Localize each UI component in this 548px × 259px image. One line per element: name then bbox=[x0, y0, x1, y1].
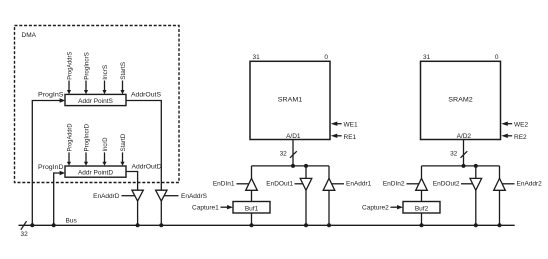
svg-text:AddrOutD: AddrOutD bbox=[132, 164, 162, 171]
wire EnDIn1 to Buf1 bbox=[251, 190, 253, 201]
wire SRAM1 buffer rail bbox=[252, 165, 330, 167]
control input ProgIncrD bbox=[83, 124, 90, 166]
junction ProgInS-bus bbox=[30, 223, 34, 227]
wire A/D2 to buffer rail bbox=[463, 140, 465, 166]
svg-text:EnAddrD: EnAddrD bbox=[93, 193, 120, 200]
WE1 input arrow bbox=[331, 122, 342, 126]
junction Buf2-bus bbox=[420, 223, 424, 227]
svg-text:Addr PointS: Addr PointS bbox=[78, 98, 113, 105]
wire rail to EnDOut2 bbox=[475, 166, 477, 179]
memory SRAM2 bbox=[421, 61, 501, 140]
tri-state buffer EnDIn1 bbox=[246, 178, 258, 190]
bus width slash 32 bbox=[21, 221, 29, 238]
EnAddr1 enable stub bbox=[332, 183, 344, 185]
svg-text:RE2: RE2 bbox=[514, 134, 527, 141]
svg-text:0: 0 bbox=[324, 54, 328, 61]
junction ProgInD-bus bbox=[52, 223, 56, 227]
control input ProgAddrS bbox=[66, 51, 73, 94]
junction A/D1-rail bbox=[291, 164, 295, 168]
wire SRAM2 buffer rail bbox=[422, 165, 500, 167]
control input StartS bbox=[120, 61, 127, 94]
svg-text:32: 32 bbox=[450, 151, 458, 158]
svg-text:WE1: WE1 bbox=[344, 122, 358, 129]
Capture2 arrow bbox=[391, 205, 404, 209]
junction EnAddrS-bus bbox=[159, 223, 163, 227]
junction EnAddrD-bus bbox=[136, 223, 140, 227]
junction EnDOut2-bus bbox=[474, 223, 478, 227]
svg-text:StartS: StartS bbox=[120, 61, 127, 79]
svg-text:ProgInD: ProgInD bbox=[38, 164, 64, 171]
svg-text:32: 32 bbox=[21, 231, 29, 238]
wire AddrOutS (Addr PointS to EnAddrS buffer) bbox=[126, 101, 161, 191]
wire EnDOut2 to bus bbox=[475, 190, 477, 225]
wire EnAddr1 to bus bbox=[328, 190, 330, 225]
register Addr PointD bbox=[65, 166, 126, 177]
EnAddrS enable stub bbox=[164, 195, 178, 197]
svg-text:31: 31 bbox=[423, 54, 431, 61]
svg-text:Buf1: Buf1 bbox=[245, 206, 259, 213]
wire Bus bbox=[19, 224, 515, 226]
junction A/D2-rail bbox=[462, 164, 466, 168]
EnDOut1 enable stub bbox=[295, 183, 303, 185]
svg-text:SRAM1: SRAM1 bbox=[278, 96, 303, 103]
junction Buf1-bus bbox=[250, 223, 254, 227]
svg-text:ProgAddrD: ProgAddrD bbox=[66, 123, 73, 151]
wire Buf2 to bus bbox=[421, 213, 423, 225]
RE2 input arrow bbox=[501, 134, 512, 138]
control input IncrS bbox=[102, 64, 109, 94]
wire AddrOutD (Addr PointD to EnAddrD buffer) bbox=[126, 172, 138, 191]
wire ProgInD (bus to Addr PointD) bbox=[54, 171, 65, 226]
svg-text:ProgAddrS: ProgAddrS bbox=[66, 51, 73, 80]
svg-text:EnDIn2: EnDIn2 bbox=[383, 181, 405, 188]
control input ProgIncrS bbox=[83, 52, 90, 95]
junction EnAddr2-bus bbox=[498, 223, 502, 227]
register Buf2 bbox=[403, 202, 440, 214]
svg-text:IncrS: IncrS bbox=[102, 64, 109, 80]
svg-text:Buf2: Buf2 bbox=[415, 206, 429, 213]
control input ProgAddrD bbox=[66, 123, 73, 166]
tri-state buffer EnDOut1 bbox=[300, 178, 312, 190]
svg-text:32: 32 bbox=[280, 151, 288, 158]
EnDIn1 enable stub bbox=[237, 183, 249, 185]
tri-state buffer EnDIn2 bbox=[416, 178, 428, 190]
svg-text:EnAddr1: EnAddr1 bbox=[346, 181, 372, 188]
svg-text:EnAddrS: EnAddrS bbox=[181, 193, 208, 200]
wire EnAddrS to bus bbox=[160, 201, 162, 225]
svg-text:0: 0 bbox=[495, 54, 499, 61]
svg-text:31: 31 bbox=[253, 54, 261, 61]
EnAddr2 enable stub bbox=[502, 183, 514, 185]
wire ProgInS (bus to Addr PointS) bbox=[32, 98, 65, 225]
tri-state buffer EnAddr1 bbox=[323, 178, 335, 190]
junction EnDOut1-rail bbox=[304, 164, 308, 168]
svg-text:WE2: WE2 bbox=[514, 122, 528, 129]
tri-state buffer EnAddr2 bbox=[494, 178, 506, 190]
SRAM1 bus width slash 32 bbox=[280, 151, 297, 158]
svg-text:ProgInS: ProgInS bbox=[38, 91, 64, 98]
tri-state buffer EnAddrD bbox=[132, 190, 143, 201]
EnAddrD enable stub bbox=[122, 195, 135, 197]
svg-text:EnAddr2: EnAddr2 bbox=[517, 181, 543, 188]
svg-text:Capture1: Capture1 bbox=[192, 205, 219, 212]
svg-text:Addr PointD: Addr PointD bbox=[78, 169, 113, 176]
control input StartD bbox=[120, 133, 127, 165]
svg-text:A/D1: A/D1 bbox=[286, 133, 301, 140]
wire rail to EnDIn2 bbox=[421, 166, 423, 179]
wire rail to EnDIn1 bbox=[251, 166, 253, 179]
memory SRAM1 bbox=[250, 61, 330, 140]
Capture1 arrow bbox=[221, 205, 234, 209]
control input IncrD bbox=[102, 137, 109, 166]
svg-text:SRAM2: SRAM2 bbox=[448, 96, 473, 103]
tri-state buffer EnAddrS bbox=[156, 190, 167, 201]
svg-text:Capture2: Capture2 bbox=[362, 205, 389, 212]
svg-text:EnDIn1: EnDIn1 bbox=[213, 181, 235, 188]
wire EnAddrD to bus bbox=[137, 201, 139, 225]
svg-text:AddrOutS: AddrOutS bbox=[131, 92, 162, 99]
svg-text:ProgIncrD: ProgIncrD bbox=[83, 124, 90, 152]
RE1 input arrow bbox=[331, 134, 342, 138]
WE2 input arrow bbox=[501, 122, 512, 126]
svg-text:ProgIncrS: ProgIncrS bbox=[83, 52, 90, 80]
junction EnDOut2-rail bbox=[474, 164, 478, 168]
wire rail to EnAddr2 bbox=[499, 166, 501, 179]
SRAM2 bus width slash 32 bbox=[450, 151, 467, 158]
wire rail to EnDOut1 bbox=[305, 166, 307, 179]
register Buf1 bbox=[233, 202, 270, 214]
wire EnDOut1 to bus bbox=[305, 190, 307, 225]
svg-text:A/D2: A/D2 bbox=[457, 133, 472, 140]
wire Buf1 to bus bbox=[251, 213, 253, 225]
svg-text:Bus: Bus bbox=[66, 218, 78, 225]
svg-text:DMA: DMA bbox=[22, 32, 37, 39]
svg-text:RE1: RE1 bbox=[344, 134, 357, 141]
wire rail to EnAddr1 bbox=[328, 166, 330, 179]
svg-text:StartD: StartD bbox=[120, 133, 127, 151]
tri-state buffer EnDOut2 bbox=[470, 178, 482, 190]
wire A/D1 to buffer rail bbox=[292, 140, 294, 166]
junction EnDOut1-bus bbox=[304, 223, 308, 227]
wire EnDIn2 to Buf2 bbox=[421, 190, 423, 201]
DMA enclosure dashed box bbox=[15, 26, 180, 183]
wire EnAddr2 to bus bbox=[499, 190, 501, 225]
junction EnAddr1-bus bbox=[327, 223, 331, 227]
EnDOut2 enable stub bbox=[461, 183, 473, 185]
svg-text:EnDOut1: EnDOut1 bbox=[266, 181, 293, 188]
EnDIn2 enable stub bbox=[407, 183, 419, 185]
svg-text:EnDOut2: EnDOut2 bbox=[433, 181, 460, 188]
svg-text:IncrD: IncrD bbox=[102, 137, 109, 151]
register Addr PointS bbox=[65, 94, 126, 105]
